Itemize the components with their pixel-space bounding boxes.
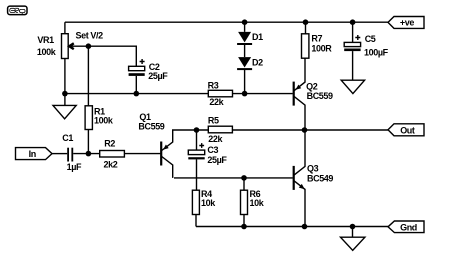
node D2 bias (242, 91, 248, 97)
wire bias rail (65, 93, 293, 95)
wire wiper to C2 (88, 46, 136, 66)
node R7 top (303, 19, 309, 25)
node Q1 emitter R5 C3 (194, 127, 200, 133)
wire VR1 top (64, 22, 66, 34)
svg-text:In: In (29, 149, 36, 159)
transistor Q2 (294, 58, 305, 130)
svg-text:Out: Out (400, 126, 415, 136)
node VR1 bottom junction (62, 91, 68, 97)
svg-text:Q3: Q3 (307, 163, 319, 173)
wire R1 branch (87, 46, 89, 153)
node wiper R1 (86, 43, 92, 49)
svg-text:Set V/2: Set V/2 (76, 31, 104, 41)
svg-text:D2: D2 (252, 57, 263, 67)
svg-text:VR1: VR1 (37, 35, 54, 45)
svg-text:25µF: 25µF (207, 155, 227, 165)
wire lower row Q1 collector to Q3 base (174, 177, 293, 179)
resistor R6 (241, 178, 248, 227)
svg-text:22k: 22k (209, 97, 224, 107)
ground under VR1 (53, 105, 76, 118)
svg-text:R3: R3 (208, 81, 219, 91)
svg-text:2k2: 2k2 (104, 159, 118, 169)
wire R4 bottom (195, 215, 197, 227)
node D1 top (242, 19, 248, 25)
svg-text:22k: 22k (208, 134, 223, 144)
svg-text:R2: R2 (104, 138, 115, 148)
node R6 top (241, 175, 247, 181)
resistor R4 (192, 190, 199, 214)
connector Gnd (388, 221, 424, 233)
svg-text:C5: C5 (365, 34, 376, 44)
svg-text:+ve: +ve (400, 18, 414, 28)
svg-text:Gnd: Gnd (400, 223, 417, 233)
svg-text:10k: 10k (201, 198, 216, 208)
node C2 bias (134, 91, 140, 97)
node R6 bottom (241, 224, 247, 230)
svg-text:Q2: Q2 (306, 81, 318, 91)
wire VR1 bottom (64, 59, 66, 106)
svg-text:D1: D1 (252, 32, 263, 42)
diode D2 (237, 45, 252, 94)
svg-text:C1: C1 (62, 133, 73, 143)
svg-text:100µF: 100µF (364, 47, 389, 57)
node ground stem (350, 224, 356, 230)
resistor R2 (100, 151, 125, 158)
potentiometer VR1 (62, 34, 89, 59)
svg-text:C3: C3 (207, 145, 218, 155)
wire In to C1 (52, 153, 67, 155)
wire C1 to R2 (73, 153, 100, 155)
svg-text:10k: 10k (250, 198, 265, 208)
node input (86, 151, 92, 157)
ground under C5 (341, 80, 364, 93)
wire R2 to Q1 base (124, 153, 160, 155)
svg-text:BC549: BC549 (307, 173, 333, 183)
svg-text:100k: 100k (94, 115, 114, 125)
ground bottom (341, 227, 365, 251)
capacitor C5 (344, 22, 360, 80)
wire top rail (65, 21, 388, 23)
resistor R5 (208, 126, 232, 133)
node Q3 emitter rail (302, 224, 308, 230)
wire bottom rail (196, 226, 388, 228)
resistor R1 (85, 106, 92, 130)
connector In (16, 148, 53, 160)
svg-text:100R: 100R (311, 43, 332, 53)
svg-text:Q1: Q1 (139, 112, 151, 122)
resistor R3 (208, 90, 232, 97)
node output (302, 127, 308, 133)
svg-text:R5: R5 (208, 115, 219, 125)
svg-text:R7: R7 (311, 33, 322, 43)
svg-text:100k: 100k (37, 47, 57, 57)
svg-text:25µF: 25µF (148, 71, 168, 81)
node C5 top (350, 19, 356, 25)
svg-text:BC559: BC559 (138, 121, 164, 131)
transistor Q3 (294, 130, 305, 227)
wire out (305, 129, 389, 131)
wire R5 row (197, 129, 305, 131)
diode D1 (237, 22, 252, 45)
capacitor C2 (129, 59, 145, 94)
capacitor C1 (67, 148, 73, 162)
transistor Q1 (161, 130, 196, 178)
svg-text:BC559: BC559 (307, 91, 333, 101)
capacitor C3 (188, 130, 204, 190)
esp logo (8, 6, 27, 15)
svg-text:1µF: 1µF (67, 162, 82, 172)
connector Out (388, 124, 424, 136)
resistor R7 (302, 22, 309, 58)
connector +ve (388, 17, 424, 29)
